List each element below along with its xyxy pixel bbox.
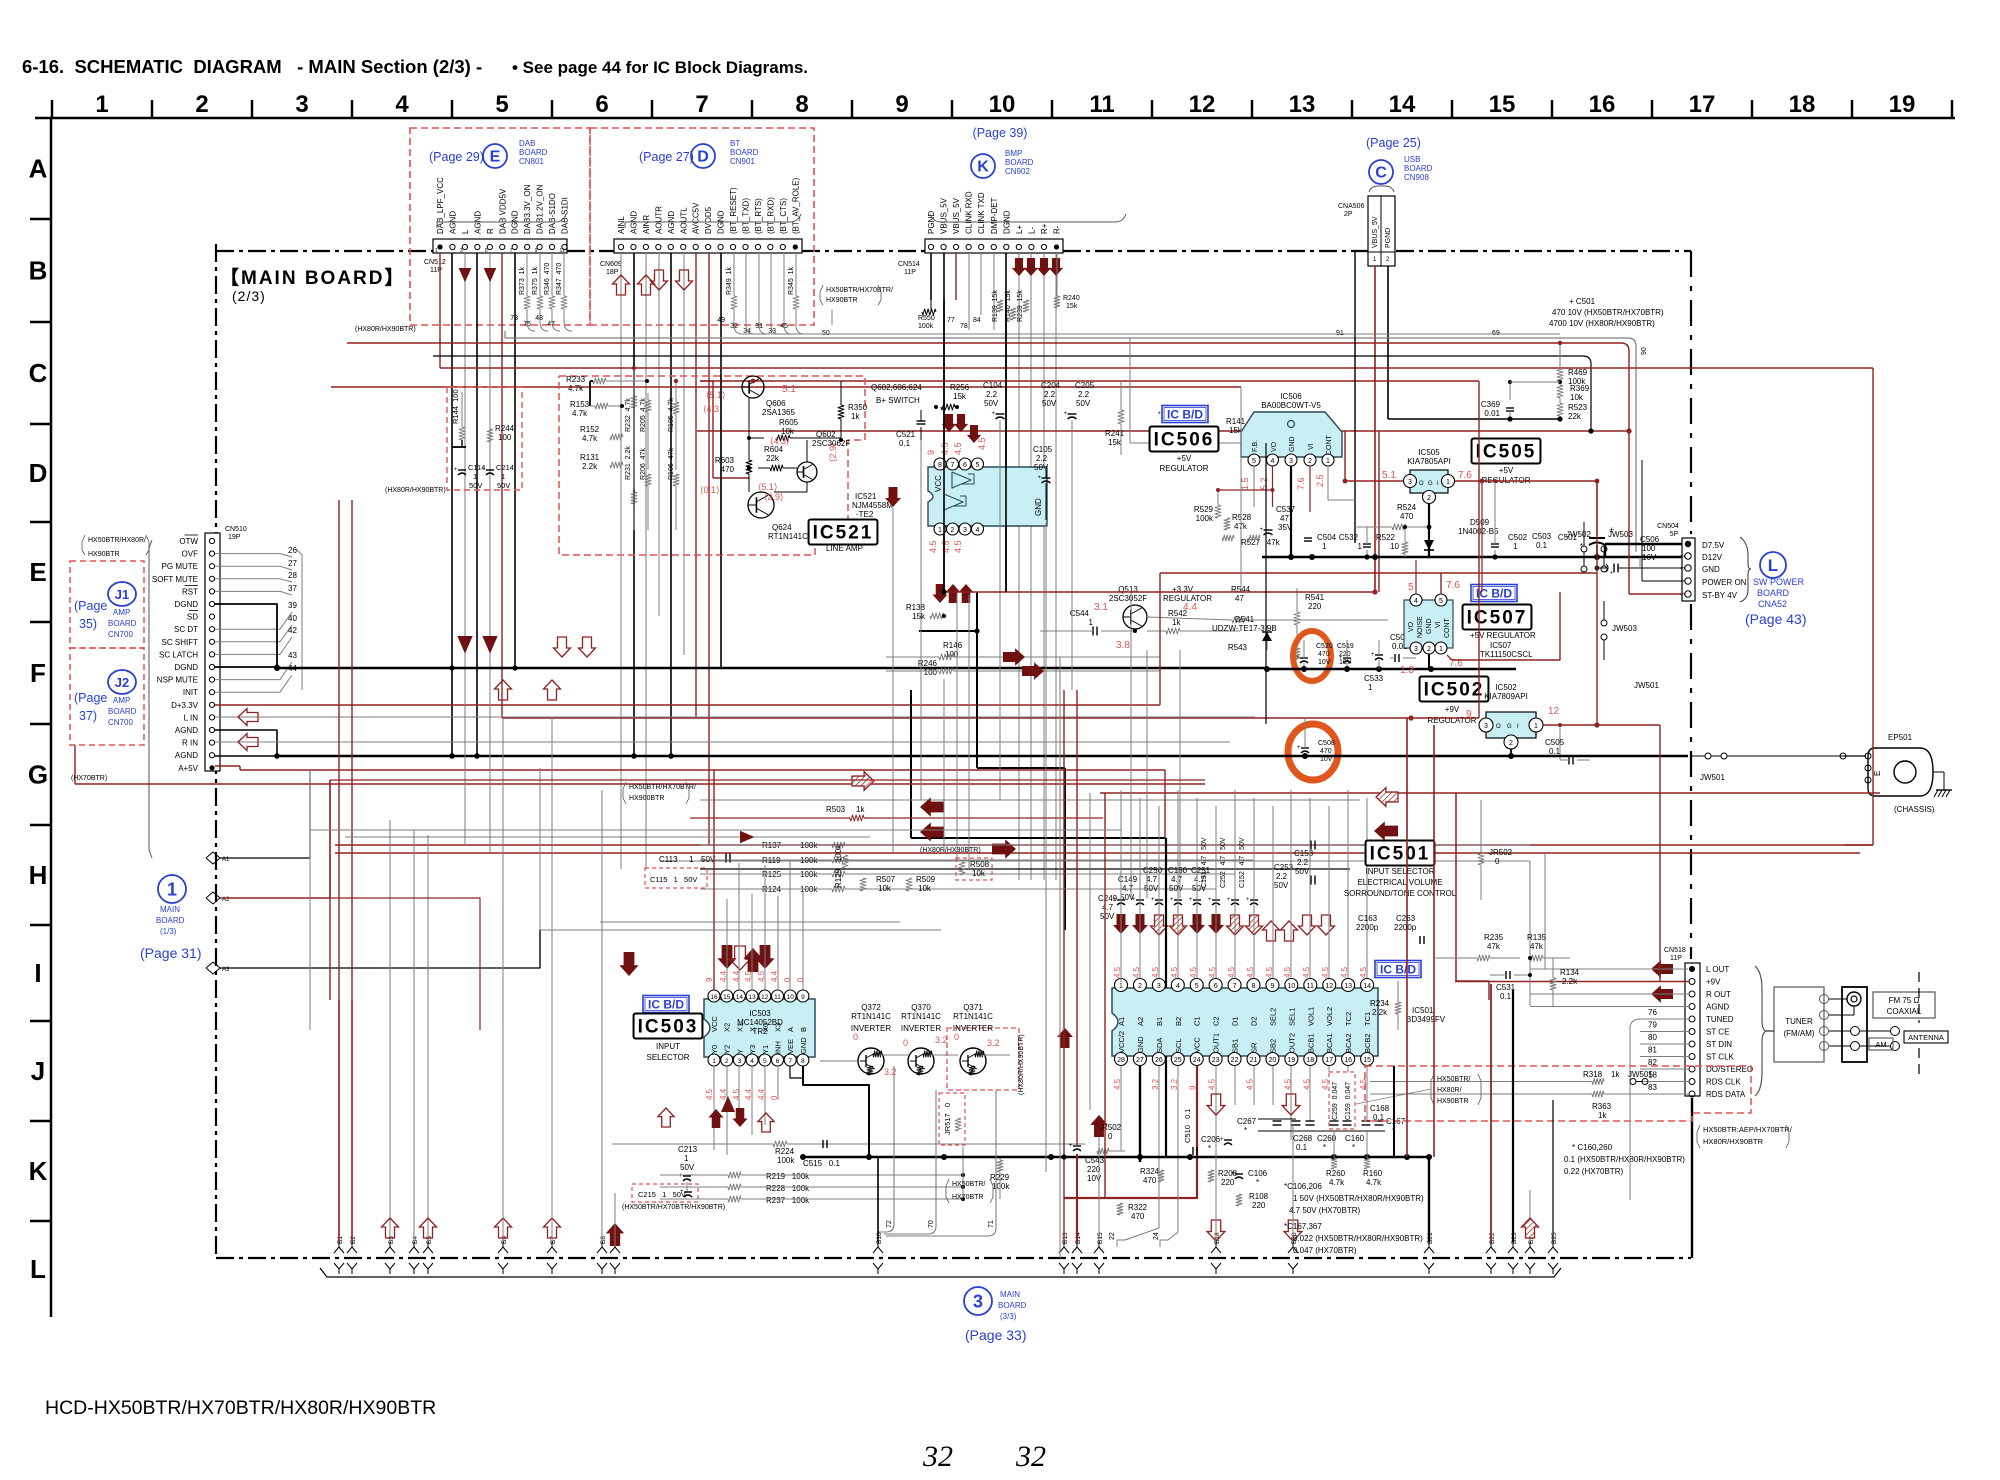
resistor R544: [1147, 585, 1388, 623]
board pin B20: [1288, 1125, 1298, 1274]
bus maroon y981 horizontal: [1456, 980, 1489, 982]
svg-text:2SC3052F: 2SC3052F: [1109, 594, 1147, 603]
CN518 pin RDS CLK: [1689, 1078, 1741, 1087]
capacitor C504: [1304, 533, 1337, 551]
CN510 pin PG MUTE: [162, 562, 215, 571]
svg-text:47: 47: [1280, 514, 1289, 523]
svg-text:B+ SWITCH: B+ SWITCH: [876, 396, 920, 405]
capacitor C506: [1595, 535, 1660, 578]
svg-text:IC501: IC501: [1412, 1006, 1434, 1015]
svg-text:POWER ON: POWER ON: [1702, 578, 1747, 587]
svg-text:220: 220: [1308, 602, 1322, 611]
IC501 pin 5: [1190, 979, 1203, 1027]
IC501 pin 16: [1342, 1033, 1355, 1065]
svg-text:7: 7: [510, 248, 513, 254]
arrow into boxes note: [831, 310, 833, 325]
svg-text:10V: 10V: [1087, 1174, 1102, 1183]
wire L IN arrow: [215, 709, 1255, 726]
wire VBUS 5V b: [955, 253, 957, 300]
svg-text:O: O: [1419, 481, 1424, 487]
wire IC501 pin24 VCC maroon: [1064, 1066, 1197, 1198]
capacitor C114: [454, 463, 485, 490]
CN518 pin ST CE: [1689, 1028, 1729, 1037]
transistor Q624: [748, 492, 808, 541]
svg-text:2: 2: [1681, 555, 1687, 558]
svg-text:25: 25: [1174, 1057, 1182, 1064]
svg-text:TR2: TR2: [752, 1027, 768, 1036]
svg-text:100k: 100k: [992, 1182, 1010, 1191]
svg-text:R373 1k: R373 1k: [519, 266, 526, 295]
CN510 pin AGND: [175, 751, 215, 760]
resistor R550: [918, 300, 936, 330]
svg-text:+: +: [1064, 411, 1068, 417]
antenna feed dashes: [1918, 972, 1920, 1078]
svg-text:BOARD: BOARD: [730, 148, 759, 157]
wire IC503 pin8 GND: [803, 1066, 869, 1100]
main board border: [216, 244, 1692, 1258]
svg-text:18: 18: [1789, 91, 1816, 118]
svg-text:(FM/AM): (FM/AM): [1783, 1029, 1814, 1038]
svg-text:MAIN: MAIN: [160, 905, 180, 914]
wire gray vertical x1130: [1129, 338, 1131, 443]
svg-text:4.5: 4.5: [1208, 1078, 1217, 1090]
regulator IC505 body: [1410, 470, 1448, 493]
resistor R205 rotated: [640, 393, 651, 470]
arrow down dark at x974 top: [967, 425, 981, 443]
wire DGND bt: [720, 253, 722, 668]
svg-text:R232 4.7k: R232 4.7k: [625, 398, 632, 432]
capacitor C153: [1294, 841, 1315, 877]
wire IC506 pin2 down: [1309, 466, 1311, 512]
CN510 pin INIT: [183, 688, 215, 697]
capacitor C213: [678, 1145, 698, 1192]
svg-text:CN901: CN901: [730, 157, 755, 166]
CN510 pin SOFT MUTE: [152, 575, 215, 584]
wire IC506 pin5 down: [1253, 466, 1255, 507]
svg-text:47: 47: [547, 321, 555, 328]
svg-text:C1: C1: [1193, 1016, 1202, 1026]
svg-text:100: 100: [924, 668, 938, 677]
capacitor C533: [1364, 640, 1384, 692]
svg-text:1k: 1k: [1598, 1111, 1607, 1120]
svg-text:+5V: +5V: [1499, 466, 1514, 475]
wire long vertical black x869: [868, 1100, 870, 1157]
svg-text:(Page 43): (Page 43): [1745, 611, 1806, 627]
svg-text:SC SHIFT: SC SHIFT: [162, 638, 199, 647]
resistor R604: [764, 445, 784, 471]
svg-text:X2: X2: [723, 1023, 732, 1032]
CN609 bracket: [625, 214, 801, 228]
capacitor C259 C159 rotated labels: [1332, 1082, 1352, 1120]
svg-text:R523: R523: [1568, 403, 1588, 412]
svg-text:C215 1 50V: C215 1 50V: [638, 1190, 686, 1199]
svg-text:0: 0: [954, 1032, 959, 1042]
svg-text:R350: R350: [848, 403, 868, 412]
svg-text:B18: B18: [1214, 1232, 1221, 1244]
resistor ladder R137 R119 R125 R124: [700, 841, 1530, 894]
IC503 pin 11: [772, 990, 784, 1032]
svg-text:ST DIN: ST DIN: [1706, 1040, 1732, 1049]
svg-text:A2: A2: [1136, 1017, 1145, 1026]
svg-text:+: +: [454, 467, 458, 473]
svg-text:SC DT: SC DT: [174, 625, 198, 634]
svg-text:3.2: 3.2: [935, 1035, 948, 1045]
svg-text:R375 1k: R375 1k: [532, 266, 539, 295]
resistor R141: [1130, 417, 1266, 446]
wire AGND pin16: [215, 730, 277, 756]
svg-text:HX70BTR: HX70BTR: [952, 1194, 984, 1201]
wire DGND bmp: [1005, 253, 1007, 592]
svg-text:R240: R240: [1063, 295, 1080, 302]
svg-text:SEL1: SEL1: [1287, 1008, 1296, 1026]
svg-text:R233: R233: [566, 375, 586, 384]
svg-text:RDS DATA: RDS DATA: [1706, 1090, 1746, 1099]
resistor R239: [1017, 290, 1029, 322]
svg-text:+: +: [1246, 897, 1250, 903]
connector CNA506: [1338, 186, 1395, 266]
svg-text:CN510: CN510: [225, 526, 247, 533]
svg-text:LINE AMP: LINE AMP: [826, 544, 863, 553]
svg-text:+: +: [1069, 1143, 1073, 1149]
svg-text:R153: R153: [570, 400, 590, 409]
svg-text:14: 14: [1389, 91, 1416, 118]
svg-text:DAB1.2V_ON: DAB1.2V_ON: [536, 184, 545, 234]
arrows below IC503: [658, 1096, 774, 1132]
svg-text:C259 0.047: C259 0.047: [1332, 1082, 1339, 1120]
svg-text:21: 21: [1250, 1057, 1258, 1064]
wire R- arrow: [1049, 253, 1063, 880]
capacitor C163: [1356, 914, 1379, 932]
arrow right solid y678: [1022, 662, 1044, 680]
svg-text:C519: C519: [1337, 643, 1354, 650]
wire IC505 pin3 left maroon: [1343, 431, 1403, 483]
svg-text:INVERTER: INVERTER: [901, 1024, 942, 1033]
svg-text:43: 43: [288, 651, 297, 660]
tuner connector block: [1820, 987, 1900, 1062]
svg-text:(HX70BTR): (HX70BTR): [71, 775, 107, 782]
IC502 part ref: [1484, 683, 1528, 701]
svg-text:VCC: VCC: [710, 1016, 719, 1032]
svg-text:5: 5: [1252, 458, 1256, 465]
svg-text:16: 16: [710, 994, 718, 1001]
IC501 pin 10: [1285, 979, 1298, 1027]
svg-text:4.5: 4.5: [1132, 966, 1141, 978]
capacitor C508: [1297, 718, 1335, 763]
svg-text:1: 1: [938, 527, 942, 534]
svg-text:CN514: CN514: [898, 261, 920, 268]
resistor R144: [451, 389, 465, 447]
svg-text:47: 47: [1235, 594, 1244, 603]
IC506 pin 5: [1248, 454, 1260, 466]
jumper JW503: [1601, 530, 1633, 572]
svg-text:2.2: 2.2: [1044, 390, 1056, 399]
bus black y869: [700, 868, 1350, 870]
svg-text:1k: 1k: [856, 805, 865, 814]
svg-text:11P: 11P: [1670, 955, 1682, 962]
CN512 pin labels: [435, 177, 570, 254]
svg-text:L+: L+: [1015, 225, 1024, 234]
svg-text:12: 12: [1189, 91, 1216, 118]
svg-text:3.8: 3.8: [1116, 640, 1130, 651]
svg-text:AOUTR: AOUTR: [654, 206, 663, 234]
wire bundle IC521 to lower verticals: [893, 420, 1072, 1258]
resistor JR502: [1478, 800, 1513, 900]
svg-text:R369: R369: [1570, 384, 1590, 393]
capacitor C249: [1098, 894, 1118, 921]
wire +9V maroon: [1455, 981, 1689, 983]
IC521 pin 3: [959, 523, 971, 535]
resistor R349: [717, 253, 737, 325]
svg-text:R141: R141: [1226, 417, 1246, 426]
wire R OUT gray: [1530, 993, 1688, 995]
svg-text:C: C: [29, 358, 48, 388]
CN504 pin labels: [1702, 541, 1747, 600]
svg-text:15k: 15k: [1066, 303, 1078, 310]
svg-text:L: L: [1768, 556, 1778, 575]
page ref C USB board: [1366, 136, 1433, 184]
IC501 pin 17: [1323, 1033, 1336, 1065]
jumper JW501: [1692, 753, 1866, 782]
svg-text:HX90BTR: HX90BTR: [826, 297, 858, 304]
svg-text:4: 4: [395, 91, 409, 118]
svg-text:17: 17: [1689, 91, 1716, 118]
CN510 pin SD: [187, 611, 215, 622]
IC501 pin 3: [1152, 979, 1165, 1027]
svg-text:+: +: [1339, 655, 1343, 661]
svg-text:4.7k: 4.7k: [572, 409, 588, 418]
jumper JW503 lower: [1601, 601, 1637, 660]
svg-text:D: D: [29, 458, 48, 488]
resistor R527: [1222, 535, 1281, 547]
svg-text:E: E: [490, 149, 501, 166]
svg-text:+: +: [679, 1173, 683, 1179]
svg-text:19: 19: [1287, 1057, 1295, 1064]
svg-text:BCA1: BCA1: [1325, 1033, 1334, 1053]
svg-text:GND: GND: [1136, 1036, 1145, 1053]
wire AOUTR with down arrow: [651, 253, 668, 616]
arrow down dark at x949 top: [942, 414, 956, 432]
svg-text:RT1N141C: RT1N141C: [953, 1012, 993, 1021]
svg-text:(HX80R/HX90BTR): (HX80R/HX90BTR): [355, 326, 416, 333]
wire IC505 pin2 down: [1428, 504, 1430, 557]
capacitor C531: [1490, 971, 1532, 1001]
ANTENNA box: [1904, 1031, 1948, 1043]
svg-text:KIA7805API: KIA7805API: [1407, 457, 1451, 466]
note HX50BTR HX80R above CN510: [82, 535, 152, 858]
resistor R523: [1557, 398, 1588, 422]
CN510 pin SC LATCH: [159, 650, 215, 659]
svg-text:3: 3: [973, 1291, 983, 1311]
wire DVDD5: [708, 253, 710, 845]
svg-text:4.5: 4.5: [1170, 966, 1179, 978]
red dashed box J1: [70, 561, 144, 648]
svg-text:4.4: 4.4: [732, 970, 741, 982]
wire bundle row H horizontals: [540, 922, 941, 930]
board pin B4: [409, 1030, 419, 1274]
svg-text:(HX80R/HX90BTR): (HX80R/HX90BTR): [920, 847, 981, 854]
wire DMP-DET: [993, 253, 995, 330]
svg-text:C206: C206: [1201, 1135, 1221, 1144]
GND bus y669: [1264, 666, 1516, 672]
svg-text:10k: 10k: [781, 427, 795, 436]
IC501 pin 28: [1115, 1031, 1128, 1066]
left ruler: [28, 118, 51, 1317]
red dashed box RDS: [1365, 1066, 1751, 1121]
arrow left L OUT: [1651, 960, 1673, 978]
CN510 pin DGND: [174, 663, 214, 672]
svg-text:C2: C2: [1212, 1016, 1221, 1026]
svg-text:OUT2: OUT2: [1287, 1033, 1296, 1053]
resistor R503 1k: [690, 805, 1103, 821]
svg-text:R135: R135: [1527, 933, 1547, 942]
svg-text:OUT1: OUT1: [1212, 1033, 1221, 1053]
bus black y356: [433, 356, 1591, 431]
resistor R507: [860, 875, 896, 893]
IC501 pin 12: [1323, 979, 1336, 1027]
svg-text:19P: 19P: [228, 534, 241, 541]
bus maroon y853: [335, 852, 1860, 854]
svg-text:(BT_RXD): (BT_RXD): [766, 197, 775, 234]
svg-text:3: 3: [295, 91, 308, 118]
svg-text:22k: 22k: [1568, 412, 1582, 421]
IC503 label box: [634, 1014, 703, 1039]
svg-text:J1: J1: [115, 587, 129, 602]
svg-text:8: 8: [801, 1058, 805, 1065]
svg-text:R244: R244: [495, 424, 515, 433]
svg-text:R206 47k: R206 47k: [640, 448, 647, 480]
svg-text:37): 37): [79, 709, 97, 723]
svg-text:H: H: [29, 860, 48, 890]
svg-text:R105 4.7k: R105 4.7k: [668, 398, 675, 432]
red dashed box J2: [70, 648, 144, 745]
svg-text:BOARD: BOARD: [1005, 158, 1034, 167]
svg-text:10: 10: [989, 91, 1016, 118]
svg-text:IC505: IC505: [1418, 448, 1440, 457]
resistor R363: [1370, 1091, 1688, 1120]
svg-text:PG MUTE: PG MUTE: [162, 562, 198, 571]
IC505 pin 1: [1442, 475, 1455, 488]
svg-text:1: 1: [1119, 983, 1123, 990]
svg-text:50V: 50V: [984, 399, 999, 408]
svg-text:2.2: 2.2: [1078, 390, 1090, 399]
wire maroon vertical x1379: [1378, 431, 1380, 592]
capacitor C268 C260 labels: [1293, 1134, 1337, 1152]
regulator IC506 body: [1241, 412, 1342, 457]
svg-text:VEE: VEE: [786, 1039, 795, 1054]
svg-text:BD3499FV: BD3499FV: [1406, 1015, 1446, 1024]
svg-text:3: 3: [1681, 567, 1687, 570]
svg-text:R550: R550: [918, 315, 935, 322]
page title: [22, 56, 808, 77]
svg-text:+: +: [1296, 655, 1300, 661]
CN518 pin TUNED: [1689, 1015, 1734, 1024]
svg-text:(Page: (Page: [74, 599, 107, 613]
svg-text:(Page 39): (Page 39): [973, 126, 1028, 140]
IC521 pin 1: [934, 523, 946, 535]
svg-text:5.1: 5.1: [782, 384, 796, 395]
svg-text:13: 13: [1344, 983, 1352, 990]
wire gray verticals col x1131 x1147 x1180: [1131, 592, 1180, 898]
svg-text:J: J: [31, 1056, 45, 1086]
connector CN512: [424, 239, 567, 274]
resistor R219: [660, 1172, 965, 1181]
CN510 pin OTW: [179, 535, 214, 546]
svg-text:6: 6: [776, 1058, 780, 1065]
svg-text:0.1: 0.1: [1500, 992, 1512, 1001]
IC521 pin 4: [972, 523, 984, 535]
wire DGND pin6 bold: [215, 604, 277, 667]
red 4.5 row above IC501: [1113, 966, 1368, 978]
svg-text:470: 470: [1400, 512, 1414, 521]
svg-text:TUNER: TUNER: [1785, 1017, 1813, 1026]
svg-text:L: L: [461, 229, 470, 234]
svg-text:R146: R146: [943, 641, 963, 650]
capacitor C267: [1237, 1117, 1257, 1135]
svg-text:37: 37: [288, 584, 297, 593]
svg-text:VOL1: VOL1: [1306, 1007, 1315, 1026]
wire AGND bt: [633, 253, 635, 756]
svg-text:C521: C521: [896, 430, 916, 439]
svg-text:2: 2: [1427, 495, 1431, 502]
svg-text:0: 0: [903, 1038, 908, 1048]
svg-text:2: 2: [1509, 740, 1513, 747]
svg-text:VBUS_5V: VBUS_5V: [952, 197, 961, 234]
svg-text:470: 470: [1131, 1212, 1145, 1221]
GND spur y557 left: [1262, 556, 1312, 559]
svg-text:5: 5: [976, 462, 980, 469]
wire AGND pin4: [476, 253, 478, 756]
svg-text:50V: 50V: [1034, 463, 1049, 472]
svg-text:24: 24: [1153, 1232, 1160, 1240]
svg-text:IC B/D: IC B/D: [648, 997, 684, 1011]
svg-text:AINR: AINR: [642, 215, 651, 234]
svg-text:DGND: DGND: [174, 600, 198, 609]
svg-text:B25: B25: [1551, 1232, 1558, 1244]
svg-text:4.5: 4.5: [953, 442, 963, 455]
svg-text:C532: C532: [1339, 533, 1359, 542]
resistor R244: [487, 410, 515, 464]
capacitor C519: [1337, 640, 1354, 669]
svg-text:+: +: [1170, 897, 1174, 903]
wire PGND from CNA506: [1387, 266, 1389, 419]
CN518 pin RDS DATA: [1689, 1090, 1746, 1099]
IC503 pin 9: [797, 990, 809, 1032]
resistor R206 rotated: [640, 448, 651, 530]
svg-text:BMP: BMP: [1005, 149, 1022, 158]
svg-text:2: 2: [1138, 983, 1142, 990]
wire BT_RTS: [743, 253, 759, 335]
svg-text:R508: R508: [970, 860, 990, 869]
board edge stub A1: [206, 770, 310, 864]
svg-text:⟨2.9⟩: ⟨2.9⟩: [764, 492, 784, 502]
CN518 pin DO/STEREO: [1689, 1065, 1753, 1074]
svg-text:CN700: CN700: [108, 630, 133, 639]
CN518 pin L OUT: [1689, 965, 1729, 974]
resistor R131: [580, 453, 623, 471]
svg-text:⟨5.1⟩: ⟨5.1⟩: [706, 390, 726, 400]
resistor R233: [566, 375, 649, 406]
svg-text:10: 10: [1390, 542, 1399, 551]
wire inverter outputs: [880, 1054, 1010, 1056]
wire IC502 pin3 maroon left: [502, 715, 1479, 720]
wire L OUT gray: [1530, 968, 1688, 970]
jumper JW502: [1566, 522, 1591, 572]
svg-text:SEL2: SEL2: [1268, 1008, 1277, 1026]
svg-text:(Page 31): (Page 31): [140, 945, 201, 961]
svg-text:47k: 47k: [1487, 942, 1501, 951]
IC503 pin 14: [733, 990, 745, 1032]
arrow solid right y849: [992, 839, 1016, 858]
